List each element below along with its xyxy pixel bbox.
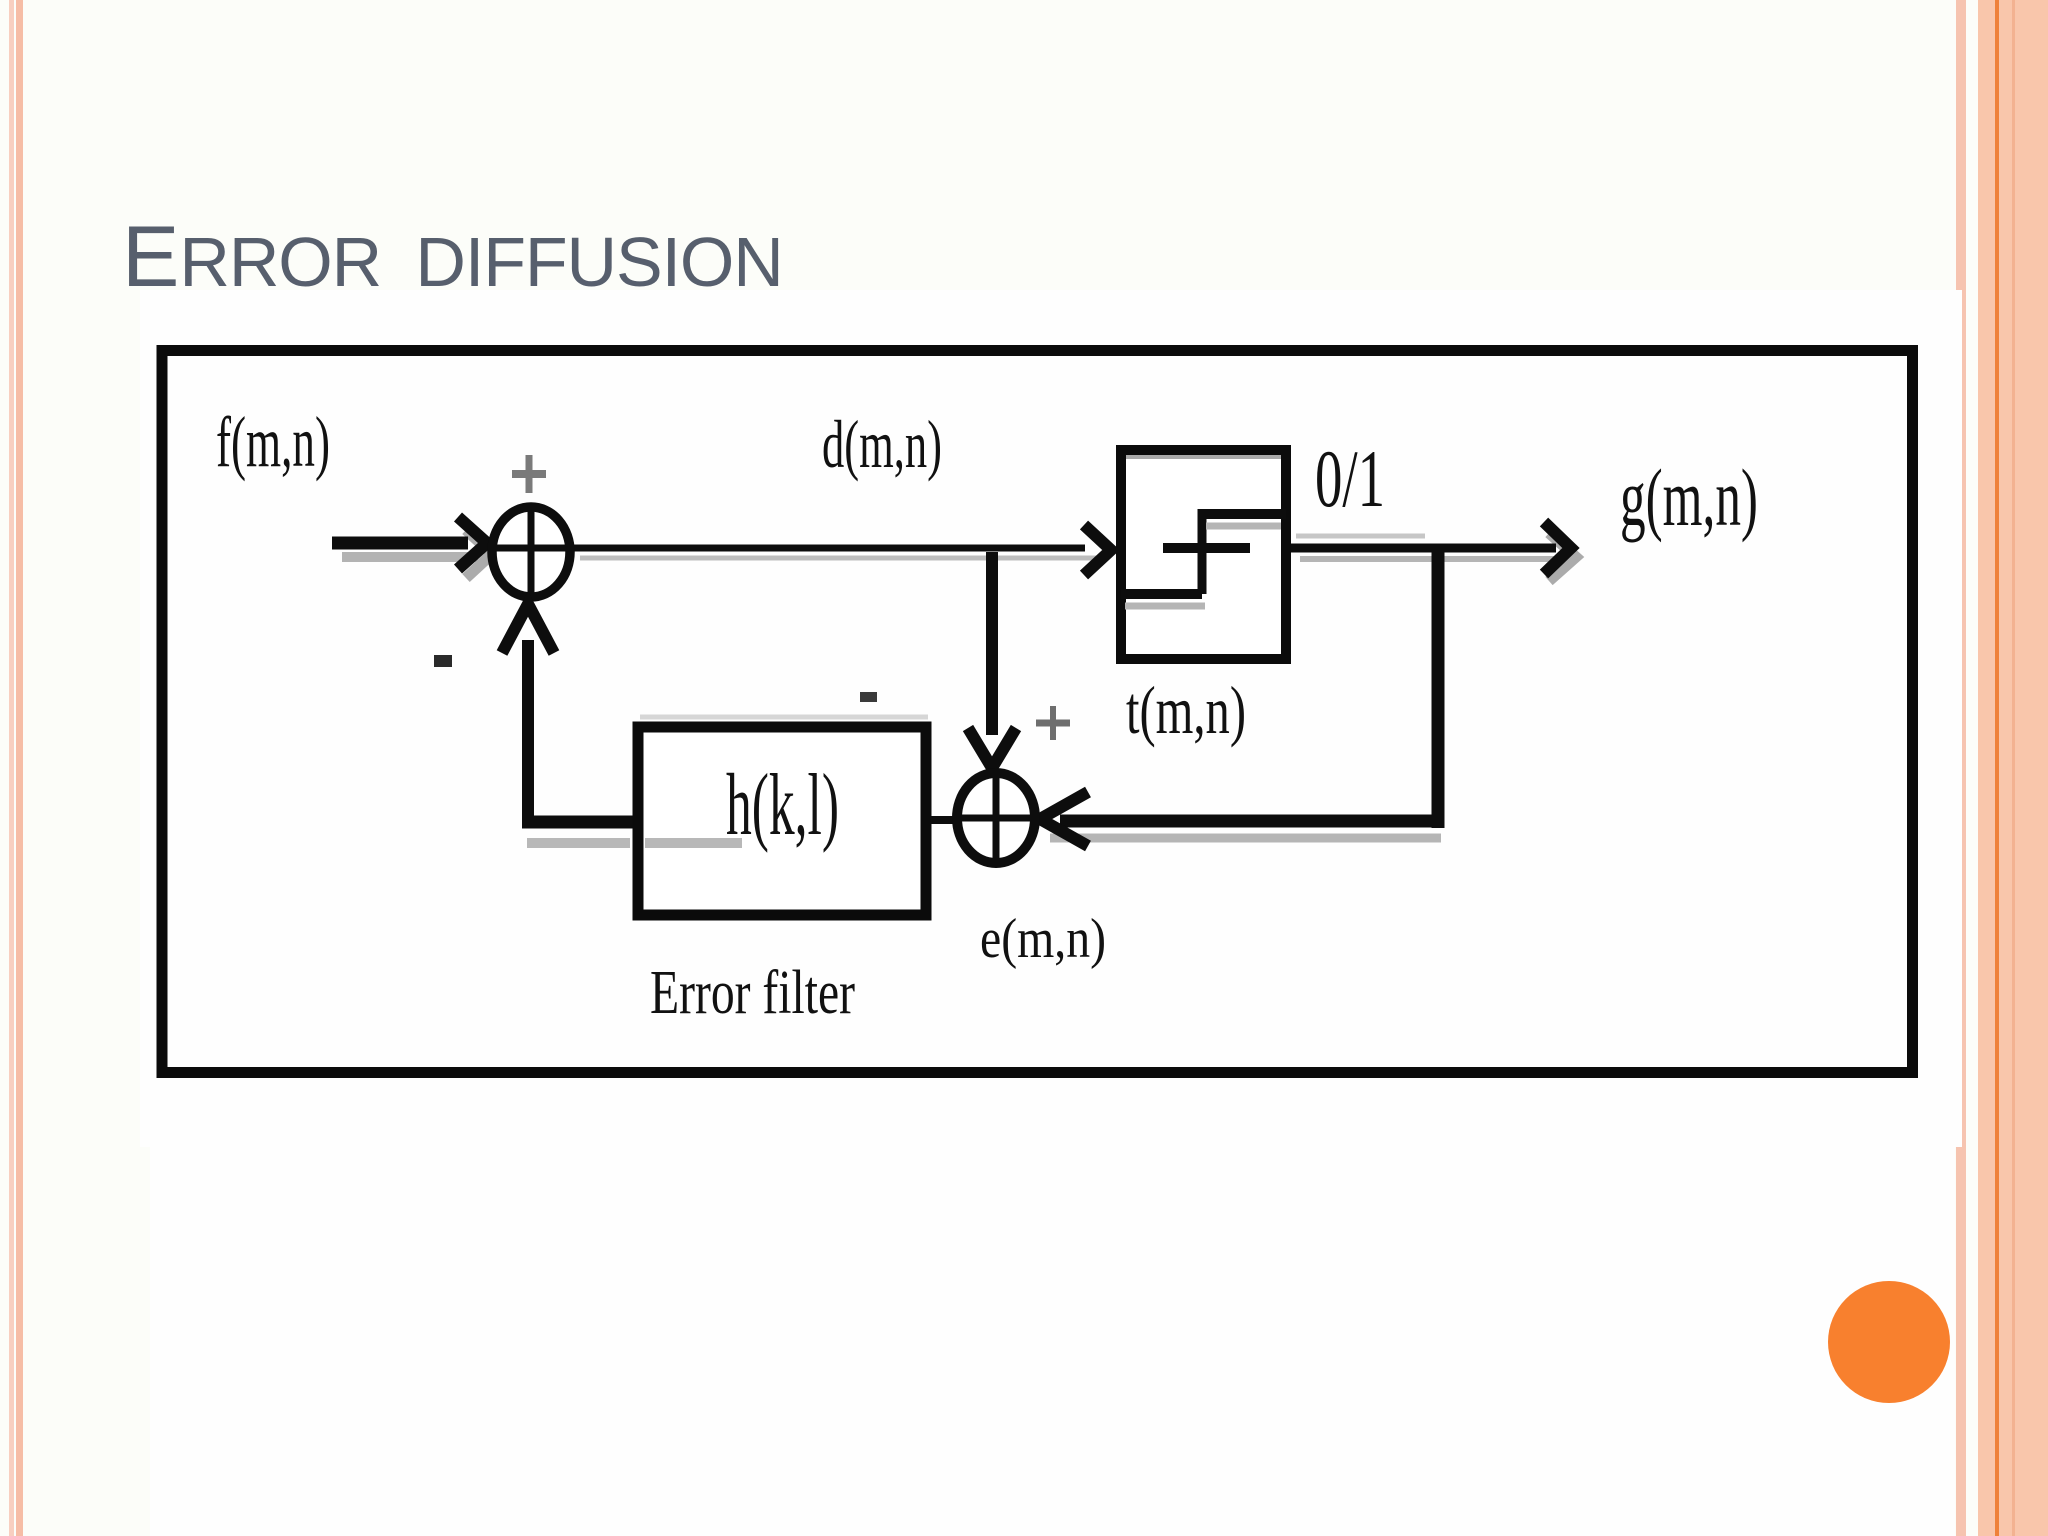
quantizer step shadows <box>1206 523 1281 530</box>
left border stripe wide <box>16 0 23 1536</box>
quantizer step axis <box>1163 543 1250 553</box>
summing junction 2 <box>957 773 1035 863</box>
white image backdrop <box>140 290 1962 1147</box>
white body area <box>150 292 1955 1536</box>
quantizer step high level <box>1202 509 1286 519</box>
left border stripe thin <box>9 0 14 1536</box>
minus sign at summer 2 <box>860 692 877 702</box>
outer frame of diagram <box>162 351 1913 1073</box>
slide title <box>122 208 783 307</box>
output wire g(m,n) <box>1291 544 1556 553</box>
svg-text:g(m,n): g(m,n) <box>1620 452 1758 543</box>
svg-text:e(m,n): e(m,n) <box>980 908 1106 970</box>
right border wide band <box>1978 0 2048 1536</box>
minus sign at summer 1 <box>434 655 452 667</box>
feedback wire up into summer 1 <box>522 640 534 822</box>
right border thin stripe <box>1956 0 1966 1536</box>
right border subtle line <box>2012 0 2015 1536</box>
plus sign at summer 1 <box>512 470 546 478</box>
quantizer step vertical <box>1198 509 1207 594</box>
svg-text:t(m,n): t(m,n) <box>1126 672 1246 748</box>
branch wire down from d(m,n) <box>986 552 998 735</box>
wire d(m,n) shadow <box>580 556 1108 561</box>
svg-text:f(m,n): f(m,n) <box>216 402 330 482</box>
feedback wire right to summer 2 shadow <box>1050 834 1441 843</box>
plus sign at summer 2 <box>1036 720 1070 727</box>
gray halo above error filter box <box>640 715 928 720</box>
quantizer box <box>1121 450 1286 659</box>
summing junction 1 <box>492 507 570 597</box>
wire h box to summer 2 <box>931 816 958 824</box>
shadow under feedback wire <box>527 838 630 848</box>
svg-text:d(m,n): d(m,n) <box>822 406 942 482</box>
right border dark orange line <box>1995 0 1999 1536</box>
output wire shadow <box>1300 556 1560 562</box>
input arrow f(m,n) <box>332 537 468 550</box>
svg-text:h(k,l): h(k,l) <box>726 757 839 854</box>
input arrow shadow <box>342 552 478 562</box>
orange accent circle bottom right <box>1828 1281 1950 1403</box>
svg-text:0/1: 0/1 <box>1315 433 1385 524</box>
quantizer inner gray top <box>1126 455 1281 459</box>
quantizer step low level <box>1121 589 1202 599</box>
feedback branch down from output <box>1432 548 1445 828</box>
feedback wire horizontal into h box <box>522 816 635 829</box>
svg-text:Error filter: Error filter <box>650 959 855 1027</box>
wire d(m,n) from summer to quantizer <box>570 545 1085 552</box>
error filter box h(k,l) <box>638 727 926 915</box>
feedback wire right to summer 2 <box>1060 815 1444 828</box>
